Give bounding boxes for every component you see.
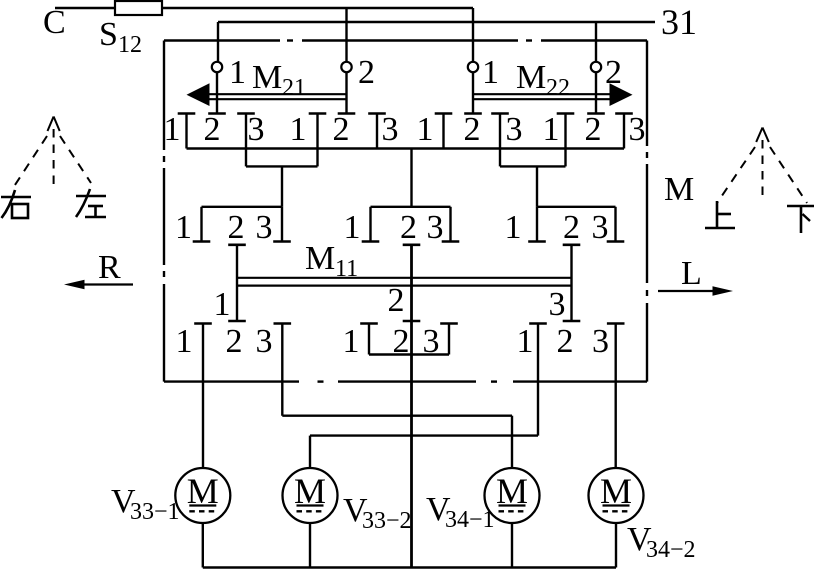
row3 groupA terminal3 contact [274, 324, 292, 416]
wire drop to contact 2 of M22 [595, 22, 597, 62]
switch row1 group1 terminal3 contact [237, 114, 255, 167]
wire contact 1 M22 down [472, 72, 474, 113]
row3 groupC terminal1 contact [529, 324, 547, 436]
motor V34-2 symbol [589, 468, 644, 523]
svg-text:1: 1 [175, 209, 192, 246]
row3 groupB terminal2 plate [403, 320, 421, 323]
wire motor V33-1 bottom [202, 523, 204, 568]
svg-text:2: 2 [358, 54, 375, 91]
label V34-2 [627, 521, 696, 563]
row2 groupC terminal2 plate [563, 244, 581, 247]
wire contact 2 M21 down [345, 72, 347, 113]
row2 groupB terminal3 contact [442, 207, 460, 242]
switch row1 group3 terminal2 plate [464, 112, 482, 115]
label you (right) chinese [1, 190, 31, 218]
motor V33-1 symbol [175, 468, 230, 523]
dashed direction arrow left (up) [13, 117, 91, 189]
M11 position label 1 [214, 286, 231, 323]
svg-text:3: 3 [549, 286, 566, 323]
svg-text:S: S [99, 16, 118, 53]
enclosure right border (chain line) [646, 41, 648, 382]
motor V34-1 symbol [485, 468, 540, 523]
svg-text:M: M [252, 59, 282, 96]
bottom bus wire [203, 566, 616, 569]
row3 groupA terminal2 plate [228, 320, 246, 323]
enclosure left border (chain line) [163, 41, 165, 382]
svg-text:1: 1 [164, 111, 181, 148]
svg-text:2: 2 [585, 111, 602, 148]
M11 position label 2 [388, 282, 405, 319]
switch row1 group2 terminal1 contact [309, 114, 327, 167]
svg-text:2: 2 [557, 323, 574, 360]
svg-text:3: 3 [427, 209, 444, 246]
svg-text:2: 2 [563, 209, 580, 246]
row1 bus wire [187, 147, 625, 149]
svg-text:3: 3 [256, 209, 273, 246]
wire row3C-1 to motor V33-2 [310, 436, 538, 468]
svg-text:1: 1 [176, 323, 193, 360]
row2 groupB terminal2 plate [403, 244, 421, 247]
svg-text:1: 1 [417, 111, 434, 148]
svg-text:3: 3 [629, 111, 646, 148]
svg-text:1: 1 [517, 323, 534, 360]
link wire groups 3-4 (U) [500, 165, 566, 167]
wire top from C to M22 contact [55, 7, 473, 9]
svg-text:M: M [305, 240, 335, 277]
row2 groupB terminal1 contact [362, 207, 380, 242]
linkage M11 double line [237, 278, 572, 286]
svg-text:12: 12 [118, 32, 142, 58]
contact circle 2 of M21 [341, 62, 351, 72]
middle wire row1 bus to row2 group B [410, 149, 412, 207]
svg-text:2: 2 [388, 282, 405, 319]
svg-text:2: 2 [226, 323, 243, 360]
row2 groupA terminal1 contact [193, 207, 211, 242]
label 1 of M22 contact [482, 54, 499, 91]
switch row1 group4 terminal3 contact [615, 114, 633, 149]
label V33-2 [343, 492, 412, 534]
svg-text:33−1: 33−1 [130, 499, 180, 525]
wire 31 horizontal [218, 21, 655, 23]
switch row1 group2 terminal3 contact [368, 114, 386, 149]
row2 groupB labels [344, 209, 444, 246]
wire drop to contact 1 of M22 [472, 8, 474, 62]
row2 groupC terminal1 contact [528, 207, 546, 242]
wire motor V33-2 bottom [309, 523, 311, 568]
label M21 [252, 59, 306, 101]
row3 groupC labels [517, 323, 610, 360]
row2 groupC bus [537, 206, 616, 208]
wire motor V34-1 bottom [511, 523, 513, 568]
svg-text:34−2: 34−2 [646, 537, 696, 563]
row3 groupC terminal2 plate [563, 320, 581, 323]
svg-text:C: C [43, 4, 66, 41]
label 2 of M21 contact [358, 54, 375, 91]
wire motor V34-2 bottom [615, 523, 617, 568]
switch row1 group2 terminal2 plate [338, 112, 356, 115]
svg-text:31: 31 [661, 2, 697, 42]
arrow R pointing left [64, 280, 133, 290]
linkage M21 double line [208, 94, 347, 99]
svg-text:3: 3 [592, 209, 609, 246]
svg-text:1: 1 [343, 323, 360, 360]
linkage M22 arrowhead [610, 83, 633, 106]
svg-text:1: 1 [290, 111, 307, 148]
svg-text:1: 1 [505, 209, 522, 246]
label V34-1 [426, 491, 495, 533]
row3 groupB labels [343, 323, 440, 360]
switch row1 group4 terminal1 contact [557, 114, 575, 167]
wire drop to contact 2 of M21 [345, 8, 347, 62]
label R [98, 249, 121, 286]
svg-text:2: 2 [393, 323, 410, 360]
wire contact 2 M22 down [595, 72, 597, 113]
row2 groupA terminal3 contact [273, 207, 291, 242]
linkage M22 double line [473, 94, 611, 99]
label V33-1 [111, 483, 180, 525]
enclosure bottom border (chain line) [164, 380, 647, 382]
label M mechanism [664, 171, 694, 208]
label shang (up) chinese [705, 201, 735, 228]
svg-text:11: 11 [335, 256, 358, 282]
svg-text:2: 2 [333, 111, 350, 148]
fuse S12 [115, 1, 162, 15]
row2 groupC terminal3 contact [607, 207, 625, 242]
M11 position label 3 [549, 286, 566, 323]
arrow L pointing right [658, 286, 733, 296]
label 2 of M22 contact [605, 54, 622, 91]
link wire groups 1-2 (U) [246, 165, 318, 167]
switch row1 group1 terminal1 contact [178, 114, 196, 149]
enclosure top border (chain line) [164, 39, 647, 41]
row2 groupB bus [371, 206, 451, 208]
contact circle 2 of M22 [591, 62, 601, 72]
row2 groupC plate stem to M11 [570, 245, 572, 321]
label S12 [99, 16, 142, 58]
row3 groupB terminal1 contact [360, 324, 378, 355]
svg-text:3: 3 [423, 323, 440, 360]
svg-text:21: 21 [282, 75, 306, 101]
wire row3A-3 to motor V34-1 [282, 416, 512, 468]
row3 groupA terminal1 contact [194, 324, 212, 469]
svg-text:33−2: 33−2 [362, 508, 412, 534]
motor V33-2 symbol [283, 468, 338, 523]
wire contact 1 M21 down [216, 72, 218, 113]
linkage M21 arrowhead [187, 83, 210, 106]
row2 groupA labels [175, 209, 273, 246]
row1 terminal labels 1 2 3 [164, 111, 646, 148]
row2 groupA plate stem to M11 [236, 245, 238, 321]
svg-text:R: R [98, 249, 121, 286]
label xia (down) chinese [787, 206, 814, 233]
row2 groupA bus [202, 206, 283, 208]
switch row1 group3 terminal1 contact [435, 114, 453, 149]
label L [681, 255, 702, 292]
row3 groupC terminal3 contact [607, 324, 625, 469]
svg-text:1: 1 [482, 54, 499, 91]
svg-text:1: 1 [229, 54, 246, 91]
label M22 [516, 59, 570, 101]
switch row1 group1 terminal2 plate [208, 112, 226, 115]
label 31 [661, 2, 697, 42]
tap wire down to row2 group A [281, 166, 283, 206]
svg-text:3: 3 [248, 111, 265, 148]
label zuo (left) chinese [76, 189, 106, 217]
svg-text:3: 3 [256, 323, 273, 360]
row2 groupA terminal2 plate [228, 244, 246, 247]
wire drop to contact 1 of M21 [217, 22, 219, 62]
svg-text:3: 3 [382, 111, 399, 148]
contact circle 1 of M22 [468, 62, 478, 72]
svg-text:3: 3 [592, 323, 609, 360]
svg-text:M: M [516, 59, 546, 96]
svg-text:3: 3 [506, 111, 523, 148]
row3 groupB terminal3 contact [440, 324, 458, 355]
svg-text:1: 1 [214, 286, 231, 323]
row2 groupC labels [505, 209, 609, 246]
row3 groupA labels [176, 323, 273, 360]
switch row1 group3 terminal3 contact [491, 114, 509, 167]
svg-text:2: 2 [464, 111, 481, 148]
svg-text:1: 1 [344, 209, 361, 246]
row3 groupB link U wire [369, 353, 449, 355]
svg-text:22: 22 [546, 75, 570, 101]
tap wire down to row2 group C [536, 166, 538, 206]
contact circle 1 of M21 [212, 62, 222, 72]
label 1 of M21 contact [229, 54, 246, 91]
svg-text:2: 2 [204, 111, 221, 148]
switch row1 group4 terminal2 plate [587, 112, 605, 115]
row2 groupB plate stem through M11 to bottom [410, 245, 413, 568]
label M11 [305, 240, 358, 282]
svg-text:L: L [681, 255, 702, 292]
svg-text:1: 1 [543, 111, 560, 148]
svg-text:2: 2 [228, 209, 245, 246]
dashed direction arrow right (up) [717, 128, 807, 204]
svg-text:2: 2 [400, 209, 417, 246]
svg-text:34−1: 34−1 [445, 507, 495, 533]
label C [43, 4, 66, 41]
svg-text:M: M [664, 171, 694, 208]
